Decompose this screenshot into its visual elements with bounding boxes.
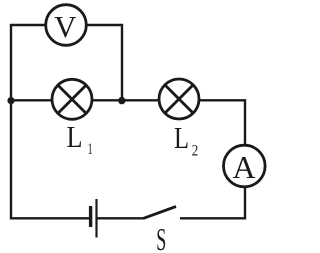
voltmeter U1 (V) xyxy=(46,5,87,46)
wire: lamp L2 right to ammeter top xyxy=(199,100,246,145)
wire: left vertical + top-left horizontal + bottom-left horizontal xyxy=(11,25,89,218)
wire: lamp L1 to lamp L2 through junction B xyxy=(92,99,160,101)
battery BT1 xyxy=(91,199,97,238)
node A (junction dot left) xyxy=(7,97,14,104)
label L2 xyxy=(174,120,198,159)
lamp L1 xyxy=(52,79,92,119)
svg-text:L: L xyxy=(174,120,189,155)
svg-text:1: 1 xyxy=(88,141,93,158)
wire: voltmeter right to junction B xyxy=(87,25,123,101)
svg-text:L: L xyxy=(67,119,83,154)
label L1 xyxy=(67,119,93,158)
svg-text:A: A xyxy=(232,149,255,185)
svg-text:S: S xyxy=(156,221,166,253)
wire: node A to lamp L1 xyxy=(11,99,53,101)
ammeter U2 (A) xyxy=(224,145,266,187)
svg-text:2: 2 xyxy=(192,142,199,159)
wire: ammeter bottom to bottom-right corner to switch right contact xyxy=(180,187,245,219)
wire: battery to switch left contact xyxy=(98,217,145,219)
switch S (open blade) xyxy=(144,207,177,219)
lamp L2 xyxy=(159,79,199,119)
node B (junction dot right) xyxy=(118,97,125,104)
svg-text:V: V xyxy=(54,9,77,44)
